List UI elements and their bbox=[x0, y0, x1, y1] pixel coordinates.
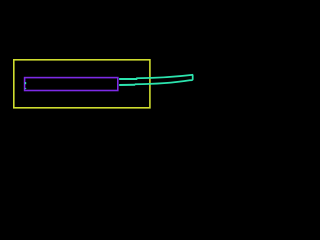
teal stick body outline bbox=[135, 75, 194, 85]
teal tick 2 bbox=[25, 88, 26, 89]
teal tick 1 bbox=[25, 82, 26, 84]
purple inner rectangle bbox=[25, 78, 118, 91]
yellow frame rectangle bbox=[14, 60, 150, 108]
teal stick top-left segment bbox=[119, 78, 137, 80]
teal stick bottom-left segment bbox=[119, 84, 135, 86]
